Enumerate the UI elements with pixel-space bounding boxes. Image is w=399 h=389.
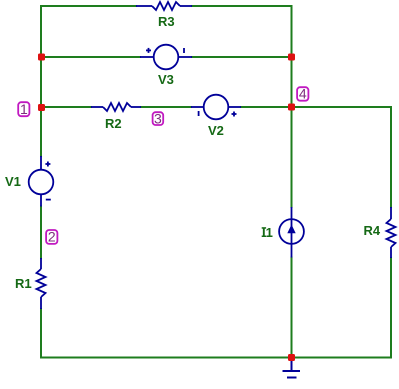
node 2 [46,229,57,245]
wire left vertical mid [40,207,42,259]
current source I1 [279,207,304,258]
wire left vertical bottom [40,309,42,358]
serif foot of 1 in I1 [267,236,273,238]
wire node row right [241,106,391,108]
wire middle vertical top [291,6,293,207]
wire left vertical top [40,6,42,156]
wire middle vertical bottom [291,258,293,358]
wire top right [192,5,292,7]
serif foot of 1 in R1 [26,287,32,289]
svg-text:3: 3 [154,110,162,126]
svg-text:4: 4 [299,86,307,102]
voltage source V3 [140,45,192,70]
wire node row mid [141,106,191,108]
junction dot V3 row left [38,54,45,61]
svg-text:V1: V1 [5,174,21,189]
wire V3 row right [192,56,292,58]
wire node row left [41,106,91,108]
svg-text:R3: R3 [158,14,175,29]
wire V3 row left [41,56,140,58]
node 4 [297,86,308,102]
ground [283,358,301,378]
resistor R4 [387,207,396,258]
voltage source V1 [29,156,54,207]
svg-text:2: 2 [48,229,56,245]
voltage source V2 [191,95,241,120]
serif foot of 1 in V1 [15,185,21,187]
svg-text:R2: R2 [105,116,122,131]
wire top left [41,5,136,7]
serifs of I in I1 [262,227,266,229]
svg-text:R1: R1 [15,276,32,291]
arrowhead of I1 [287,225,295,234]
resistor R2 [91,103,141,111]
wire bottom [41,357,391,359]
svg-text:1: 1 [20,101,28,117]
junction dot node1 row left [38,104,45,111]
svg-text:V2: V2 [208,123,224,138]
junction dot V3 row right [288,54,295,61]
wire right vertical top [390,107,392,207]
node 1 [18,101,29,117]
resistor R1 [37,258,46,309]
resistor R3 [136,2,192,10]
node 3 [153,110,164,126]
wire right vertical bottom [390,258,392,358]
svg-text:R4: R4 [364,223,381,238]
junction dot node 4 [288,104,295,111]
svg-text:V3: V3 [158,72,174,87]
junction dot ground [288,354,295,361]
